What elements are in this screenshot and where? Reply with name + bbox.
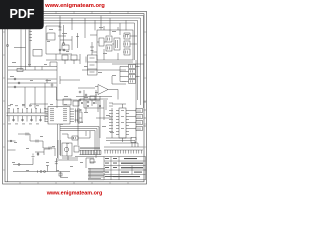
svg-text:www.enigmateam.org: www.enigmateam.org	[46, 191, 103, 197]
svg-text:www.enigmateam.org: www.enigmateam.org	[44, 3, 105, 9]
svg-text:PDF: PDF	[10, 7, 35, 21]
